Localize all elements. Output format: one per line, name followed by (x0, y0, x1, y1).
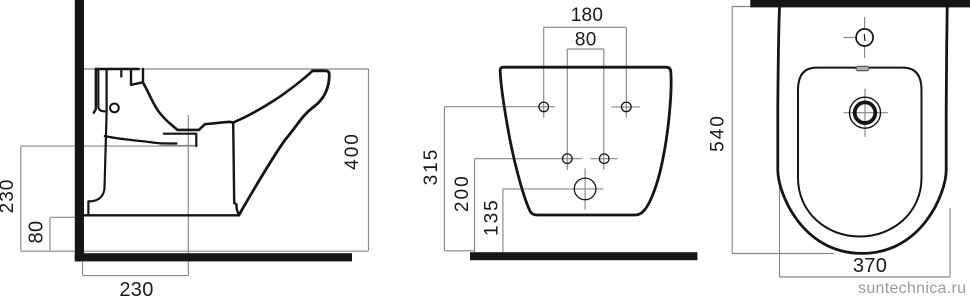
svg-text:540: 540 (708, 114, 729, 152)
svg-text:315: 315 (421, 148, 442, 186)
svg-text:suntechnica.ru: suntechnica.ru (858, 280, 966, 297)
svg-text:135: 135 (481, 198, 502, 236)
svg-text:370: 370 (853, 255, 887, 277)
svg-text:80: 80 (26, 221, 48, 244)
svg-text:230: 230 (0, 179, 18, 214)
svg-text:230: 230 (119, 279, 153, 299)
svg-text:180: 180 (571, 5, 604, 26)
svg-text:200: 200 (452, 174, 473, 212)
svg-text:400: 400 (342, 132, 363, 170)
svg-text:80: 80 (575, 30, 597, 51)
